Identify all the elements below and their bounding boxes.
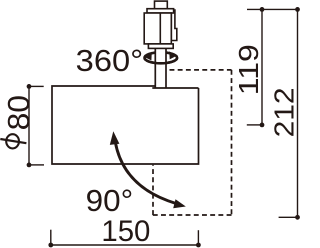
212 dot bottom: [295, 215, 300, 220]
svg-text:212: 212: [269, 87, 300, 137]
ellipse front arc redrawn over stem: [145, 58, 178, 64]
phi80 dot top: [27, 84, 32, 89]
adapter body: [144, 13, 171, 44]
svg-text:119: 119: [233, 44, 264, 95]
stem left side: [154, 48, 156, 88]
ellipse arrowhead left: [143, 52, 152, 61]
dashed bottom edge: [152, 214, 231, 216]
adapter right tab: [171, 10, 177, 41]
dashed left edge: [152, 165, 154, 215]
svg-text:90°: 90°: [86, 183, 134, 218]
phi80 top tick: [29, 85, 44, 87]
119 dimension line: [261, 9, 263, 125]
150 right tick: [197, 230, 199, 245]
lamp shade body: [52, 86, 199, 164]
dashed right edge: [231, 70, 233, 215]
svg-text:80: 80: [2, 95, 36, 130]
stem right side: [165, 48, 167, 88]
150 dot right: [196, 243, 201, 248]
phi symbol circle: [6, 134, 19, 148]
tilt arrow head top: [110, 131, 120, 145]
360 deg rotation ellipse: [145, 52, 178, 63]
phi80 dot bottom: [27, 163, 32, 168]
phi symbol slash: [0, 139, 26, 143]
svg-text:150: 150: [101, 215, 150, 248]
tilt arrow head bottom: [173, 199, 186, 208]
shade top-right seam line: [152, 87, 198, 89]
150 dot left: [48, 243, 53, 248]
119 dot top: [260, 7, 265, 12]
119 bottom tick: [247, 124, 262, 126]
212 dot top: [295, 7, 300, 12]
adapter bottom plate: [148, 44, 173, 49]
adapter body divider: [159, 13, 161, 44]
svg-text:360°: 360°: [76, 44, 144, 78]
212 bottom tick: [279, 216, 298, 218]
150 left tick: [50, 230, 52, 245]
phi80 bottom tick: [29, 164, 44, 166]
right dims shared top tick: [247, 8, 300, 10]
212 dimension line: [297, 9, 299, 217]
ellipse arrowhead right: [169, 51, 177, 59]
dashed outline of fixture tilted 90 deg : top edge: [170, 69, 232, 71]
150 dimension line: [51, 244, 199, 246]
90 deg tilt arrow shaft: [115, 142, 176, 204]
119 dot bottom: [260, 123, 265, 128]
stem (white over ellipse back arc): [155, 48, 166, 87]
adapter top plate: [147, 9, 174, 13]
phi80 dimension line: [28, 86, 30, 164]
adapter plug: [155, 1, 168, 9]
